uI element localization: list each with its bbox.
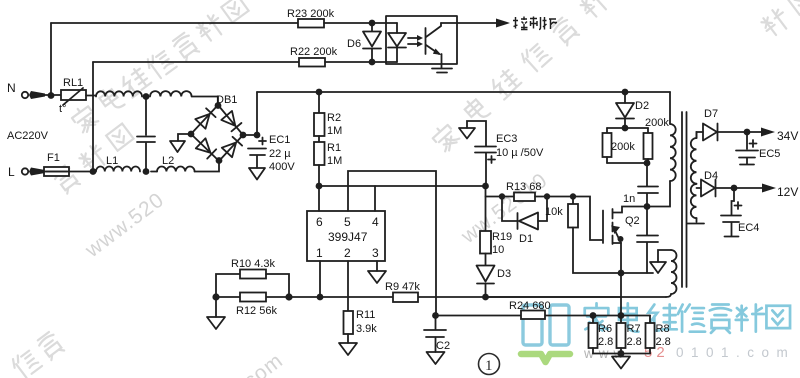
svg-text:2: 2: [344, 246, 351, 260]
svg-text:R1: R1: [327, 142, 341, 154]
node R6 top: [590, 312, 597, 319]
thermistor RL1: [59, 77, 96, 115]
inductor: common-mode choke top winding (right half): [150, 91, 218, 105]
brand url www.520101.com: [583, 344, 795, 361]
watermark hanzi top-right partial: [759, 0, 800, 39]
svg-text:10 µ /50V: 10 µ /50V: [496, 147, 544, 159]
node R1 bottom / pin6: [316, 183, 323, 190]
main HV bus wire: [257, 91, 670, 93]
node D2 bottom: [622, 125, 629, 132]
capacitor EC5: [736, 132, 780, 165]
svg-text:C2: C2: [436, 340, 450, 352]
node junction on L line: [90, 168, 97, 175]
circled number 1: [479, 354, 500, 375]
label 控制板 (control board): [513, 17, 557, 30]
svg-text:3: 3: [372, 246, 379, 260]
svg-text:Q2: Q2: [625, 215, 640, 227]
diode D1 parallel with R13: [502, 197, 547, 246]
svg-text:6: 6: [316, 215, 323, 229]
svg-text:EC3: EC3: [496, 133, 517, 145]
node R7 top: [618, 312, 625, 319]
svg-text:R2: R2: [327, 112, 341, 124]
brand text hanzi cyan 家电维修资料网: [585, 303, 790, 333]
svg-text:12V: 12V: [777, 185, 798, 199]
svg-text:D3: D3: [497, 268, 511, 280]
wire to Q2 gate: [573, 197, 602, 241]
wire C2 node row: [436, 315, 651, 317]
capacitor EC3 10u/50V with ground: [459, 121, 544, 186]
resistor clamp left 200k: [603, 128, 649, 163]
resistor R11 3.9k: [339, 309, 377, 355]
optocoupler U (photocoupler): [386, 16, 457, 73]
MOSFET Q2: [603, 207, 647, 274]
ground below R10/R12 node: [207, 297, 225, 329]
IC U1 399J47: [307, 211, 385, 261]
wire: EC1 node up to main HV bus: [256, 92, 258, 135]
wire bridge right vertex to EC1 node: [243, 134, 257, 136]
ground at bridge left vertex: [170, 134, 191, 152]
svg-text:R8: R8: [656, 323, 670, 335]
node junction on N line: [143, 93, 150, 100]
arrow 34V output: [747, 128, 798, 144]
svg-text:34V: 34V: [777, 129, 798, 143]
svg-text:F1: F1: [47, 152, 60, 164]
svg-text:399J47: 399J47: [328, 230, 368, 244]
wire source node down to R7: [620, 273, 622, 316]
svg-text:200k: 200k: [645, 117, 669, 129]
svg-text:EC5: EC5: [759, 148, 780, 160]
svg-text:R7: R7: [627, 323, 641, 335]
svg-text:R10 4.3k: R10 4.3k: [231, 258, 276, 270]
diode D4: [697, 170, 735, 197]
resistor R13 68: [506, 181, 573, 201]
svg-text:400V: 400V: [269, 161, 295, 173]
resistor R6 2.8: [589, 316, 614, 354]
wire pin1 down to bottom bus: [319, 261, 321, 297]
svg-text:R11: R11: [356, 309, 375, 321]
svg-text:t°: t°: [59, 103, 66, 115]
wire: vertical from N node up to R23 line: [50, 23, 52, 95]
watermark diagonal hanzi top-left: [70, 0, 251, 135]
svg-text:R19: R19: [492, 231, 512, 243]
capacitor EC1 22u 400V electrolytic: [248, 134, 295, 173]
svg-text:1: 1: [316, 246, 323, 260]
ground at feedback winding top: [650, 250, 671, 273]
svg-text:0101.com: 0101.com: [676, 345, 795, 360]
node 10k top: [570, 193, 576, 199]
resistor R7 2.8: [617, 316, 642, 354]
wire pin5 up and over to bottom vertical: [348, 171, 436, 315]
resistor clamp right: [607, 128, 653, 163]
bridge rectifier DB1: [188, 94, 247, 164]
svg-text:R12 56k: R12 56k: [236, 305, 277, 317]
resistor 10k gate: [545, 197, 621, 274]
node R10/R12 left junction: [212, 293, 219, 300]
ground below EC1: [249, 168, 265, 180]
capacitor C2 with ground: [424, 316, 450, 365]
diode D6: [347, 23, 381, 62]
wire pin2 down to R11: [347, 261, 349, 311]
watermark hanzi bottom-left corner partial: [10, 331, 65, 378]
svg-text:D6: D6: [347, 38, 361, 50]
node C2 / R24: [432, 312, 439, 319]
svg-text:L2: L2: [162, 155, 174, 167]
resistor R24 680: [509, 300, 551, 319]
svg-text:2.8: 2.8: [598, 336, 613, 348]
wire pin6 node to R19 node: [319, 185, 485, 187]
capacitor drain-source snubber: [621, 207, 658, 274]
node N input terminal: [7, 81, 61, 99]
fuse F1: [44, 152, 93, 176]
wire opto collector output to control board: [441, 19, 510, 28]
svg-text:L1: L1: [106, 155, 118, 167]
inductor L1: [96, 155, 140, 172]
node D3 bottom: [482, 294, 489, 301]
resistor R19 10: [480, 231, 512, 265]
diode D3: [477, 266, 512, 298]
svg-text:1M: 1M: [327, 125, 342, 137]
inductor L2: [151, 155, 219, 172]
node R2 top on bus: [316, 89, 323, 96]
logo open book cyan: [521, 305, 570, 362]
svg-text:200k: 200k: [611, 141, 635, 153]
wire pin4 up to node line: [374, 186, 376, 211]
ground at pin3: [368, 261, 386, 283]
wire bottom bus to feedback winding: [486, 296, 667, 298]
svg-text:N: N: [7, 81, 16, 95]
svg-text:R22 200k: R22 200k: [290, 46, 338, 58]
watermark diagonal hanzi center: [430, 0, 640, 154]
node junction X-cap bottom: [143, 168, 150, 175]
node R10/R12 right junction: [285, 293, 292, 300]
wire feedback winding bottom: [666, 294, 671, 297]
svg-text:10: 10: [492, 244, 504, 256]
wire gate drive row: [485, 186, 487, 231]
wire: vertical from L line up to R22 line: [92, 62, 94, 172]
svg-text:EC1: EC1: [269, 134, 290, 146]
diode D7: [697, 108, 748, 141]
resistor R8 2.8: [646, 316, 671, 354]
node D6 bottom: [369, 59, 376, 66]
node clamp bottom: [644, 160, 651, 167]
svg-text:R6: R6: [598, 323, 612, 335]
svg-text:22 µ: 22 µ: [269, 148, 291, 160]
svg-text:3.9k: 3.9k: [356, 323, 377, 335]
svg-text:4: 4: [372, 215, 379, 229]
inductor: common-mode choke top winding (left half): [96, 91, 142, 96]
node EC3/R19/pin4: [482, 183, 489, 190]
resistor R9 47k: [385, 281, 420, 302]
svg-text:2.8: 2.8: [627, 336, 642, 348]
capacitor EC4: [721, 188, 759, 237]
svg-text:D7: D7: [704, 108, 718, 120]
svg-text:D2: D2: [635, 100, 649, 112]
node D6 top: [369, 20, 376, 27]
capacitor X-cap between lines: [137, 97, 155, 172]
transformer T1 primary winding: [647, 92, 676, 207]
svg-text:1n: 1n: [623, 193, 635, 205]
resistor R10 4.3k parallel loop: [216, 258, 289, 297]
node 34V: [744, 129, 751, 136]
svg-text:AC220V: AC220V: [7, 130, 49, 142]
resistor R22 200k: [93, 46, 397, 67]
node Q2 drain: [644, 203, 651, 210]
resistor R1 1M: [314, 136, 342, 186]
watermark diagonal hanzi mid-left partial: [52, 123, 136, 195]
arrow 12V output: [734, 184, 798, 200]
svg-text:5: 5: [344, 215, 351, 229]
transformer secondary winding: [687, 132, 704, 224]
resistor R2 1M: [314, 92, 342, 137]
svg-text:D1: D1: [519, 233, 533, 245]
node L input terminal: [8, 165, 45, 179]
svg-text:L: L: [8, 165, 15, 179]
node Q2 source bottom: [618, 270, 625, 277]
svg-text:10k: 10k: [545, 206, 563, 218]
resistor R12 56k: [236, 293, 277, 318]
svg-text:R13 68: R13 68: [506, 181, 541, 193]
svg-text:R9 47k: R9 47k: [385, 281, 420, 293]
svg-text:1: 1: [485, 358, 493, 374]
svg-text:2.8: 2.8: [656, 336, 671, 348]
capacitor 1n snubber: [623, 163, 658, 207]
wire pin6: [318, 189, 320, 211]
svg-text:RL1: RL1: [63, 77, 83, 89]
transformer core: [682, 112, 687, 287]
node D2 top on bus: [622, 89, 629, 96]
transformer T1 feedback winding: [671, 250, 677, 294]
svg-text:EC4: EC4: [738, 222, 759, 234]
bottom wire R6-R8 with ground: [593, 350, 650, 368]
diode D2: [616, 92, 649, 128]
svg-text:1M: 1M: [327, 155, 342, 167]
bottom bus wire: [216, 296, 621, 298]
node 12V: [731, 185, 738, 192]
resistor R23 200k: [51, 8, 397, 28]
